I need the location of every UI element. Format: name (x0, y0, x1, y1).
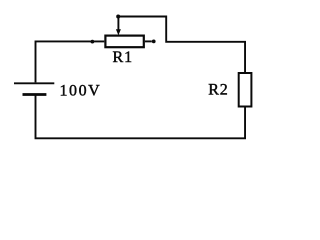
svg-text:100V: 100V (60, 82, 102, 99)
svg-text:R2: R2 (208, 82, 228, 99)
svg-text:R1: R1 (113, 49, 133, 66)
